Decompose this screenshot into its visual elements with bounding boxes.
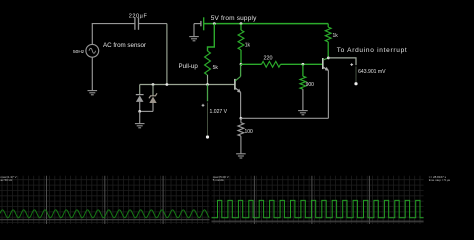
svg-text:Pull-up: Pull-up <box>179 63 199 70</box>
wire <box>241 117 329 119</box>
ground <box>88 90 98 92</box>
ground <box>298 110 308 112</box>
wire <box>240 64 242 76</box>
probe P1 <box>202 103 209 139</box>
svg-text:5k: 5k <box>213 65 219 71</box>
ground <box>189 36 199 38</box>
wire <box>328 58 356 65</box>
scope trace: AC sensor sine wave <box>0 210 209 218</box>
wire <box>139 111 141 123</box>
capacitor C1 220µF <box>135 17 139 29</box>
node <box>240 117 243 120</box>
svg-text:5V from supply: 5V from supply <box>211 15 257 22</box>
oscilloscope pane 1 grid <box>0 176 210 224</box>
probe P2 <box>350 63 357 85</box>
resistor R5 100 <box>238 118 244 154</box>
svg-text:900: 900 <box>306 82 315 88</box>
wire <box>208 24 215 51</box>
node <box>166 83 169 86</box>
wire <box>241 63 262 65</box>
wire <box>194 23 201 25</box>
wire <box>140 84 235 86</box>
wire <box>91 24 93 45</box>
ac source V1 50Hz <box>86 44 99 57</box>
transistor Q1 <box>235 76 241 92</box>
svg-text:220µF: 220µF <box>129 14 148 20</box>
oscilloscope pane 1 axis <box>0 219 210 221</box>
wire <box>327 70 329 118</box>
svg-text:50Hz: 50Hz <box>73 49 85 55</box>
wire <box>92 23 135 25</box>
diode D1 <box>136 85 144 112</box>
node <box>240 22 243 25</box>
svg-text:1k: 1k <box>333 33 339 39</box>
node <box>213 22 216 25</box>
wire <box>207 75 209 85</box>
node <box>152 83 155 86</box>
svg-text:1k: 1k <box>245 42 251 48</box>
ground <box>135 123 145 125</box>
transistor Q2 <box>323 58 329 71</box>
svg-text:ac 50 Hz: ac 50 Hz <box>1 178 13 182</box>
svg-text:100: 100 <box>245 129 254 135</box>
svg-text:1.027 V: 1.027 V <box>210 109 228 115</box>
svg-text:5 ms/div: 5 ms/div <box>213 178 225 182</box>
node <box>240 63 243 66</box>
resistor R4 900 <box>300 64 306 110</box>
svg-text:time step = 5 µs: time step = 5 µs <box>429 178 451 182</box>
resistor R3 220 <box>262 61 281 67</box>
oscilloscope pane 2 major divisions <box>253 176 255 224</box>
node <box>138 110 141 113</box>
svg-text:220: 220 <box>264 56 273 62</box>
zener diode D2 <box>149 85 157 112</box>
resistor R2 1k <box>238 24 244 65</box>
oscilloscope pane 1 major divisions <box>46 176 48 224</box>
svg-text:643.901 mV: 643.901 mV <box>358 69 386 75</box>
resistor R6 1k <box>325 24 331 58</box>
wire <box>207 85 209 102</box>
voltage source V2 5V <box>201 17 204 30</box>
oscilloscope pane 2 axis <box>212 220 424 222</box>
svg-text:To Arduino interrupt: To Arduino interrupt <box>337 47 408 54</box>
wire <box>140 110 153 112</box>
svg-text:AC from sensor: AC from sensor <box>103 42 146 49</box>
scope trace: interrupt square wave <box>212 200 424 217</box>
wire <box>91 57 93 90</box>
resistor R1 5k pull-up <box>205 51 211 75</box>
oscilloscope pane 2 grid <box>212 176 424 224</box>
wire <box>166 24 168 85</box>
wire <box>240 92 242 118</box>
wire <box>281 63 323 65</box>
node <box>327 57 330 60</box>
node <box>206 83 209 86</box>
ground <box>236 153 246 155</box>
wire <box>193 24 195 37</box>
node <box>302 63 305 66</box>
wire <box>139 23 167 25</box>
wire <box>204 23 329 25</box>
